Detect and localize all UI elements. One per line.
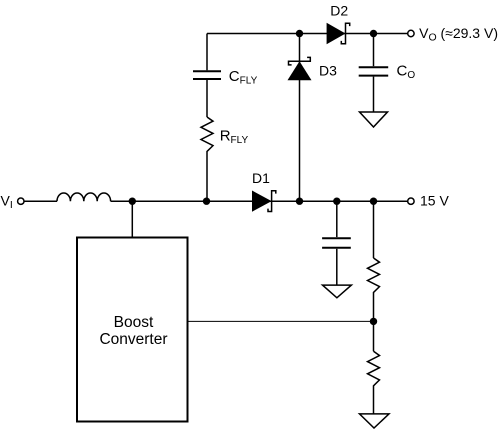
svg-text:Converter: Converter [99,331,167,348]
svg-text:D2: D2 [330,3,348,19]
svg-text:15 V: 15 V [420,192,449,208]
svg-text:D3: D3 [319,63,337,79]
svg-text:D1: D1 [252,170,270,186]
svg-text:Boost: Boost [114,314,154,331]
